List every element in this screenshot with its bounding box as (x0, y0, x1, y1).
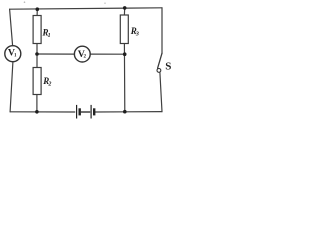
node A junction (R1/R2 tap) (35, 52, 39, 56)
node top-A junction (36, 7, 40, 11)
node bottom-B junction (123, 110, 127, 114)
wire middle right (voltmeter V2 to node B) (90, 53, 125, 55)
resistor R1 (33, 16, 51, 44)
voltmeter V2 (74, 46, 90, 62)
battery cell 1 negative plate (78, 108, 80, 115)
wire branch B lower (resistor R3 to bottom bus) (123, 44, 125, 112)
voltmeter V1 (5, 46, 21, 62)
wire left edge upper (corner to voltmeter V1) (10, 9, 13, 46)
wire middle left (node A to voltmeter V2) (37, 53, 75, 55)
wire top bus (10, 8, 162, 9)
battery cell 2 negative plate (93, 108, 95, 115)
wire branch A lower (resistor R2 to bottom bus) (36, 95, 38, 112)
switch blade (158, 53, 162, 68)
svg-text:1: 1 (48, 33, 51, 39)
wire branch A upper (top bus to resistor R1) (36, 9, 38, 15)
node top-B junction (123, 6, 127, 10)
battery cell 2 positive plate (90, 105, 92, 119)
wire left edge lower (voltmeter V1 to bottom-left corner) (10, 62, 13, 112)
switch contact circle (157, 69, 161, 73)
svg-text:S: S (165, 60, 171, 72)
resistor R3 (120, 15, 139, 44)
node B junction (R3 tap) (123, 52, 127, 56)
wire between battery cells (81, 111, 90, 113)
node bottom-A junction (35, 110, 39, 114)
wire right edge lower (switch to bottom-right corner) (160, 72, 162, 111)
wire bottom bus left (corner to battery) (10, 111, 75, 113)
wire right edge upper (top-right corner to switch) (161, 8, 163, 53)
wire bottom bus right (battery to bottom-right corner) (95, 111, 162, 113)
wire branch A middle (resistor R1 to resistor R2 through node) (36, 44, 38, 68)
resistor R2 (33, 68, 51, 95)
wire branch B upper (top bus to resistor R3) (123, 8, 125, 15)
svg-text:2: 2 (47, 82, 51, 88)
battery cell 1 positive plate (76, 105, 78, 119)
battery B1 (two cells on bottom bus) (77, 105, 95, 119)
switch S (157, 53, 171, 72)
svg-text:3: 3 (135, 32, 139, 38)
